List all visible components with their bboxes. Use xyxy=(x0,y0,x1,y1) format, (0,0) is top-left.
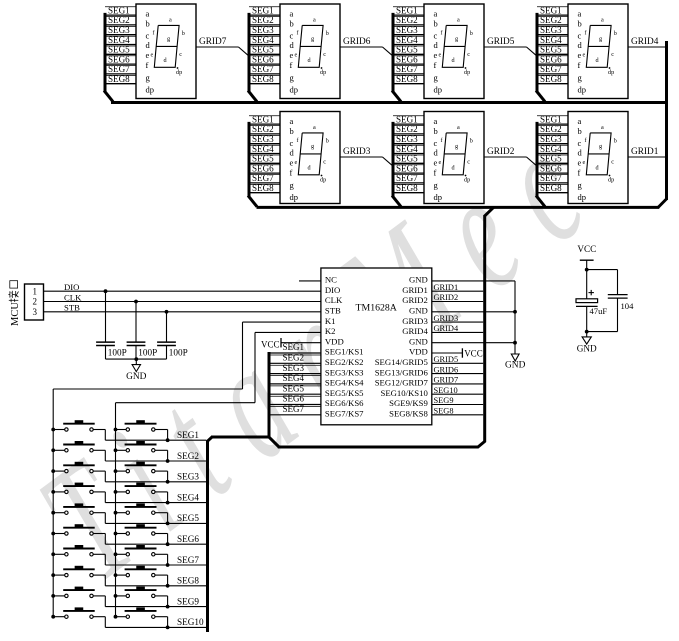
wire segment: vertical bus at display GRID2 xyxy=(392,122,395,197)
svg-text:SEG9: SEG9 xyxy=(434,396,454,405)
svg-text:GND: GND xyxy=(505,361,526,371)
svg-text:GND: GND xyxy=(126,372,147,382)
svg-text:GRID3: GRID3 xyxy=(402,316,428,326)
wire SEG5 stub xyxy=(393,154,424,156)
svg-text:b: b xyxy=(290,126,294,136)
svg-text:STB: STB xyxy=(325,306,341,316)
svg-text:SEG4: SEG4 xyxy=(396,35,418,45)
display body box xyxy=(568,112,628,204)
svg-text:SEG6: SEG6 xyxy=(283,394,305,404)
svg-text:SEG1: SEG1 xyxy=(396,5,418,15)
svg-text:b: b xyxy=(578,18,582,28)
svg-text:b: b xyxy=(326,30,329,37)
key switch S12 (row SEG6, col K2) xyxy=(114,524,170,546)
wire segment: vertical bus at display GRID4 xyxy=(536,13,539,92)
svg-text:SEG8: SEG8 xyxy=(252,183,274,193)
svg-text:SEG1/KS1: SEG1/KS1 xyxy=(325,347,364,357)
svg-text:SEG5: SEG5 xyxy=(540,154,562,164)
svg-text:VCC: VCC xyxy=(261,339,280,349)
svg-text:GND: GND xyxy=(409,306,428,316)
svg-text:dp: dp xyxy=(290,85,299,95)
wire SEG1 stub xyxy=(537,6,568,8)
svg-text:GRID4: GRID4 xyxy=(402,326,428,336)
capacitor C1 100P xyxy=(105,291,107,342)
svg-text:SEG2/KS2: SEG2/KS2 xyxy=(325,357,364,367)
svg-text:SEG10/KS10: SEG10/KS10 xyxy=(380,388,428,398)
svg-text:e: e xyxy=(434,157,438,167)
svg-text:SEG2: SEG2 xyxy=(396,124,418,134)
wire SEG6 stub xyxy=(249,164,280,166)
svg-text:b: b xyxy=(578,126,582,136)
svg-text:a: a xyxy=(457,124,460,131)
svg-text:SEG7: SEG7 xyxy=(252,173,274,183)
svg-text:a: a xyxy=(169,17,172,24)
svg-text:SEG8: SEG8 xyxy=(434,407,454,416)
svg-text:c: c xyxy=(434,138,438,148)
wire SEG8 stub xyxy=(105,74,136,76)
svg-text:SEG8: SEG8 xyxy=(540,183,562,193)
svg-text:e: e xyxy=(439,159,442,166)
wire SEG7 stub xyxy=(249,65,280,67)
svg-text:TM1628A: TM1628A xyxy=(356,303,397,314)
svg-text:e: e xyxy=(439,52,442,59)
svg-text:dp: dp xyxy=(464,176,470,183)
ground symbol (caps) xyxy=(135,359,137,365)
svg-text:2: 2 xyxy=(33,297,38,307)
key switch S2 (row SEG1, col K2) xyxy=(114,420,170,442)
svg-text:SEG6: SEG6 xyxy=(396,163,418,173)
wire GND net from chip xyxy=(432,280,515,282)
wire SEG6 (key sense) xyxy=(270,395,321,397)
svg-text:SEG12/GRID7: SEG12/GRID7 xyxy=(375,378,429,388)
svg-text:SEG4: SEG4 xyxy=(177,492,199,502)
key switch S6 (row SEG3, col K2) xyxy=(114,462,170,484)
svg-text:GND: GND xyxy=(409,336,428,346)
svg-text:b: b xyxy=(470,138,473,145)
svg-text:STB: STB xyxy=(64,303,80,313)
wire SEG5 stub xyxy=(249,154,280,156)
wire segment: vertical bus at display GRID5 xyxy=(392,13,395,92)
wire DIO xyxy=(44,290,321,292)
key switch S15 (row SEG8, col K1) xyxy=(51,566,105,586)
svg-text:SEG8: SEG8 xyxy=(108,74,130,84)
display body box xyxy=(280,112,340,204)
wire K2 xyxy=(255,331,321,333)
wire bus: row-2 horizontal bus xyxy=(257,206,660,209)
svg-text:100P: 100P xyxy=(169,347,188,357)
svg-text:CLK: CLK xyxy=(325,295,343,305)
wire SEG7 stub xyxy=(537,65,568,67)
svg-text:SEG2: SEG2 xyxy=(108,15,130,25)
svg-text:SEG1: SEG1 xyxy=(108,5,130,15)
svg-text:GRID1: GRID1 xyxy=(402,285,428,295)
svg-text:dp: dp xyxy=(434,192,443,202)
svg-text:g: g xyxy=(311,143,314,150)
svg-text:DIO: DIO xyxy=(325,285,340,295)
wire bus: bottom horizontal bus under chip xyxy=(278,446,479,449)
svg-text:SEG5: SEG5 xyxy=(396,45,418,55)
power VCC label (right, chip VDD) xyxy=(432,352,463,354)
wire segment: vertical bus at display GRID7 xyxy=(104,13,107,92)
svg-text:SEG5: SEG5 xyxy=(108,45,130,55)
svg-text:e: e xyxy=(290,50,294,60)
wire SEG4 stub xyxy=(537,144,568,146)
svg-text:104: 104 xyxy=(621,301,635,311)
wire GRID6 to bus xyxy=(432,373,483,375)
svg-text:c: c xyxy=(578,31,582,41)
svg-text:SEG1: SEG1 xyxy=(540,5,562,15)
wire SEG5 stub xyxy=(249,45,280,47)
svg-text:a: a xyxy=(578,116,582,126)
svg-text:K1: K1 xyxy=(325,316,336,326)
svg-text:GRID2: GRID2 xyxy=(434,293,459,302)
svg-text:SEG8: SEG8 xyxy=(252,74,274,84)
svg-text:b: b xyxy=(614,138,617,145)
wire SEG8 stub xyxy=(249,74,280,76)
svg-text:SEG13/GRID6: SEG13/GRID6 xyxy=(375,367,429,377)
svg-text:c: c xyxy=(611,159,614,166)
svg-text:SEG3: SEG3 xyxy=(177,472,199,482)
svg-text:a: a xyxy=(290,116,294,126)
svg-text:SEG6: SEG6 xyxy=(252,54,274,64)
svg-text:GND: GND xyxy=(409,275,428,285)
svg-text:e: e xyxy=(146,50,150,60)
display body box xyxy=(424,4,484,99)
node junction cap gnd xyxy=(585,330,589,334)
wire key row SEG10 xyxy=(105,626,206,628)
svg-text:dp: dp xyxy=(290,192,299,202)
svg-text:SEG4: SEG4 xyxy=(252,144,274,154)
svg-text:47uF: 47uF xyxy=(590,306,608,316)
7-segment digit glyph of display GRID1 xyxy=(586,133,611,175)
svg-text:c: c xyxy=(146,31,150,41)
wire GRID4 to bus xyxy=(432,331,483,333)
svg-text:c: c xyxy=(434,31,438,41)
wire SEG6 stub xyxy=(249,55,280,57)
display body box xyxy=(136,4,196,99)
wire SEG2 stub xyxy=(249,16,280,18)
svg-text:g: g xyxy=(599,36,602,43)
svg-text:SGE9/KS9: SGE9/KS9 xyxy=(389,398,428,408)
svg-text:f: f xyxy=(578,167,581,177)
key switch S7 (row SEG4, col K1) xyxy=(51,483,105,503)
svg-text:VCC: VCC xyxy=(577,244,596,254)
svg-text:SEG4: SEG4 xyxy=(540,35,562,45)
svg-text:SEG2: SEG2 xyxy=(540,15,562,25)
key switch S4 (row SEG2, col K2) xyxy=(114,441,170,463)
wire NC stub xyxy=(299,280,321,282)
wire SEG3 stub xyxy=(537,134,568,136)
svg-text:SEG7: SEG7 xyxy=(108,64,130,74)
key switch S18 (row SEG9, col K2) xyxy=(114,587,170,609)
svg-text:100P: 100P xyxy=(108,347,127,357)
svg-text:SEG8: SEG8 xyxy=(540,74,562,84)
svg-text:dp: dp xyxy=(320,176,326,183)
svg-text:SEG6: SEG6 xyxy=(252,163,274,173)
svg-text:SEG10: SEG10 xyxy=(434,386,458,395)
wire SEG4 stub xyxy=(249,144,280,146)
svg-text:MCU: MCU xyxy=(10,302,21,326)
svg-text:NC: NC xyxy=(325,275,337,285)
svg-text:SEG2: SEG2 xyxy=(540,124,562,134)
display body box xyxy=(568,4,628,99)
wire SEG5 stub xyxy=(537,45,568,47)
wire SEG6 stub xyxy=(537,164,568,166)
wire STB xyxy=(44,311,321,313)
wire SEG4 stub xyxy=(537,35,568,37)
svg-text:SEG7: SEG7 xyxy=(396,173,418,183)
svg-text:c: c xyxy=(467,159,470,166)
svg-text:SEG3: SEG3 xyxy=(540,134,562,144)
svg-text:GRID3: GRID3 xyxy=(434,314,459,323)
7-segment display module GRID2 xyxy=(392,112,536,207)
wire SEG7 stub xyxy=(249,174,280,176)
wire SEG3 stub xyxy=(537,25,568,27)
svg-text:a: a xyxy=(434,116,438,126)
wire SEG5 stub xyxy=(537,154,568,156)
wire SEG5 (key sense) xyxy=(270,385,321,387)
wire SEG5 stub xyxy=(105,45,136,47)
svg-text:f: f xyxy=(578,60,581,70)
node junction VCC xyxy=(585,268,589,272)
wire SEG2 stub xyxy=(105,16,136,18)
svg-text:a: a xyxy=(601,124,604,131)
svg-text:a: a xyxy=(290,9,294,19)
svg-text:SEG3: SEG3 xyxy=(283,363,305,373)
svg-text:SEG6: SEG6 xyxy=(540,163,562,173)
7-segment display module GRID6 xyxy=(248,4,392,102)
svg-text:c: c xyxy=(290,31,294,41)
svg-text:SEG7/KS7: SEG7/KS7 xyxy=(325,409,364,419)
svg-text:SEG4: SEG4 xyxy=(283,373,305,383)
key switch S3 (row SEG2, col K1) xyxy=(51,441,105,461)
wire SEG1 stub xyxy=(393,6,424,8)
wire bus: key-matrix vertical bus xyxy=(206,441,209,632)
power VCC label (left, chip VDD) xyxy=(281,342,321,344)
svg-text:SEG3: SEG3 xyxy=(108,25,130,35)
svg-text:g: g xyxy=(455,36,458,43)
svg-text:SEG3: SEG3 xyxy=(252,134,274,144)
wire segment: vertical bus at display GRID3 xyxy=(248,122,251,197)
svg-text:c: c xyxy=(611,51,614,58)
svg-text:SEG5/KS5: SEG5/KS5 xyxy=(325,388,364,398)
wire SEG8 to bus xyxy=(432,414,483,416)
node junction CLK/C2 xyxy=(134,300,138,304)
7-segment digit glyph of display GRID5 xyxy=(442,25,467,67)
svg-text:SEG5: SEG5 xyxy=(252,45,274,55)
capacitor C2 100P xyxy=(135,302,137,343)
7-segment display module GRID4 xyxy=(536,4,667,102)
wire SEG1 stub xyxy=(105,6,136,8)
wire SEG7 (key sense) xyxy=(270,406,321,408)
svg-text:c: c xyxy=(290,138,294,148)
wire GRID1 to bus xyxy=(432,290,483,292)
svg-text:f: f xyxy=(290,60,293,70)
svg-text:f: f xyxy=(290,167,293,177)
ground symbol (VCC caps) xyxy=(586,332,588,337)
capacitor C4 47uF electrolytic xyxy=(589,292,594,294)
key switch S16 (row SEG8, col K2) xyxy=(114,566,170,588)
svg-text:e: e xyxy=(578,157,582,167)
svg-text:SEG2: SEG2 xyxy=(252,124,274,134)
key switch S14 (row SEG7, col K2) xyxy=(114,545,170,567)
wire SEG2 stub xyxy=(537,125,568,127)
wire SEG2 (key sense) xyxy=(270,354,321,356)
capacitor C5 104 xyxy=(617,270,619,295)
svg-text:e: e xyxy=(290,157,294,167)
svg-text:GRID6: GRID6 xyxy=(434,365,459,374)
svg-text:e: e xyxy=(295,52,298,59)
wire SEG3 (key sense) xyxy=(270,364,321,366)
wire SEG2 stub xyxy=(249,125,280,127)
svg-text:SEG6: SEG6 xyxy=(540,54,562,64)
wire SEG2 stub xyxy=(393,16,424,18)
svg-text:SEG7: SEG7 xyxy=(540,173,562,183)
svg-text:SEG3/KS3: SEG3/KS3 xyxy=(325,367,364,377)
wire segment: vertical bus at display GRID1 xyxy=(536,122,539,197)
svg-text:GRID4: GRID4 xyxy=(434,324,459,333)
svg-text:SEG2: SEG2 xyxy=(283,353,305,363)
svg-text:SEG4: SEG4 xyxy=(540,144,562,154)
svg-text:SEG9: SEG9 xyxy=(177,596,199,606)
op-amp n/a : IC U1 TM1628A body xyxy=(321,268,432,425)
wire key row SEG1 xyxy=(105,439,206,441)
wire SEG7 stub xyxy=(537,174,568,176)
wire SEG10 to bus xyxy=(432,393,483,395)
wire SEG3 stub xyxy=(249,25,280,27)
wire SEG7 stub xyxy=(393,174,424,176)
wire key row SEG8 xyxy=(105,585,206,587)
svg-text:SEG3: SEG3 xyxy=(252,25,274,35)
svg-text:SEG14/GRID5: SEG14/GRID5 xyxy=(375,357,428,367)
svg-text:b: b xyxy=(146,18,150,28)
svg-text:a: a xyxy=(146,9,150,19)
svg-text:SEG5: SEG5 xyxy=(252,154,274,164)
capacitor C3 100P xyxy=(166,312,168,342)
svg-text:VDD: VDD xyxy=(325,336,344,346)
svg-text:SEG5: SEG5 xyxy=(283,383,305,393)
svg-text:a: a xyxy=(457,17,460,24)
svg-text:dp: dp xyxy=(464,69,470,76)
7-segment digit glyph of display GRID7 xyxy=(154,25,179,67)
key switch S17 (row SEG9, col K1) xyxy=(51,587,105,607)
wire CLK xyxy=(44,301,321,303)
svg-text:SEG4: SEG4 xyxy=(108,35,130,45)
svg-text:dp: dp xyxy=(578,192,587,202)
svg-text:SEG5: SEG5 xyxy=(540,45,562,55)
wire SEG2 stub xyxy=(393,125,424,127)
svg-text:b: b xyxy=(182,30,185,37)
svg-text:SEG6: SEG6 xyxy=(177,534,199,544)
key switch S1 (row SEG1, col K1) xyxy=(51,420,105,440)
wire SEG4 stub xyxy=(105,35,136,37)
wire SEG6 stub xyxy=(393,164,424,166)
svg-text:a: a xyxy=(313,17,316,24)
svg-text:f: f xyxy=(434,60,437,70)
key switch S10 (row SEG5, col K2) xyxy=(114,503,170,525)
svg-text:dp: dp xyxy=(434,85,443,95)
svg-text:SEG4/KS4: SEG4/KS4 xyxy=(325,378,364,388)
svg-text:GRID1: GRID1 xyxy=(434,283,459,292)
svg-text:a: a xyxy=(601,17,604,24)
wire key row SEG6 xyxy=(105,543,206,545)
svg-text:SEG3: SEG3 xyxy=(540,25,562,35)
svg-text:3: 3 xyxy=(33,307,38,317)
svg-text:SEG1: SEG1 xyxy=(252,5,274,15)
svg-text:c: c xyxy=(323,159,326,166)
svg-text:GRID2: GRID2 xyxy=(487,147,515,157)
svg-text:GND: GND xyxy=(577,344,597,354)
svg-text:SEG2: SEG2 xyxy=(177,451,199,461)
key switch S19 (row SEG10, col K1) xyxy=(51,607,105,627)
svg-text:SEG2: SEG2 xyxy=(396,15,418,25)
svg-text:SEG7: SEG7 xyxy=(283,404,305,414)
node junction STB/C3 xyxy=(165,310,169,314)
7-segment digit glyph of display GRID4 xyxy=(586,25,611,67)
svg-text:GRID7: GRID7 xyxy=(199,37,227,47)
svg-text:e: e xyxy=(578,50,582,60)
wire bus: chip-left SEG bus xyxy=(268,352,271,437)
svg-text:SEG8: SEG8 xyxy=(177,576,199,586)
wire SEG1 stub xyxy=(249,115,280,117)
svg-text:K2: K2 xyxy=(325,326,336,336)
svg-text:a: a xyxy=(578,9,582,19)
svg-text:c: c xyxy=(467,51,470,58)
svg-text:100P: 100P xyxy=(138,347,157,357)
svg-text:VCC: VCC xyxy=(464,348,483,358)
svg-text:SEG6: SEG6 xyxy=(108,54,130,64)
wire GRID5 to bus xyxy=(432,362,483,364)
svg-text:e: e xyxy=(583,159,586,166)
key switch S8 (row SEG4, col K2) xyxy=(114,483,170,505)
wire SEG1 stub xyxy=(249,6,280,8)
svg-text:CLK: CLK xyxy=(64,292,82,302)
7-segment display module GRID7 xyxy=(104,4,248,102)
node junction at cap2 xyxy=(134,357,138,361)
svg-text:GRID3: GRID3 xyxy=(343,147,371,157)
svg-text:SEG6: SEG6 xyxy=(396,54,418,64)
svg-text:DIO: DIO xyxy=(64,282,79,292)
wire key row SEG5 xyxy=(105,522,206,524)
wire SEG6 stub xyxy=(105,55,136,57)
svg-text:GRID5: GRID5 xyxy=(434,355,459,364)
svg-text:e: e xyxy=(295,159,298,166)
wire key row SEG9 xyxy=(105,606,206,608)
wire SEG9 to bus xyxy=(432,404,483,406)
connector label MCU接口 (hanzi drawn as strokes) xyxy=(8,281,21,326)
svg-text:SEG6/KS6: SEG6/KS6 xyxy=(325,398,364,408)
wire GRID2 to bus xyxy=(432,301,483,303)
wire SEG4 stub xyxy=(393,35,424,37)
svg-text:SEG1: SEG1 xyxy=(177,430,199,440)
svg-text:SEG1: SEG1 xyxy=(252,114,274,124)
svg-text:e: e xyxy=(434,50,438,60)
wire SEG1 stub xyxy=(393,115,424,117)
wire SEG4 (key sense) xyxy=(270,375,321,377)
7-segment digit glyph of display GRID2 xyxy=(442,133,467,175)
svg-text:b: b xyxy=(470,30,473,37)
wire SEG6 stub xyxy=(537,55,568,57)
wire SEG3 stub xyxy=(249,134,280,136)
wire SEG8 stub xyxy=(537,183,568,185)
svg-text:SEG5: SEG5 xyxy=(177,513,199,523)
svg-text:f: f xyxy=(434,167,437,177)
svg-text:SEG8: SEG8 xyxy=(396,183,418,193)
svg-text:b: b xyxy=(290,18,294,28)
wire SEG8 stub xyxy=(393,183,424,185)
svg-text:SEG7: SEG7 xyxy=(177,555,199,565)
svg-text:GRID4: GRID4 xyxy=(631,37,659,47)
